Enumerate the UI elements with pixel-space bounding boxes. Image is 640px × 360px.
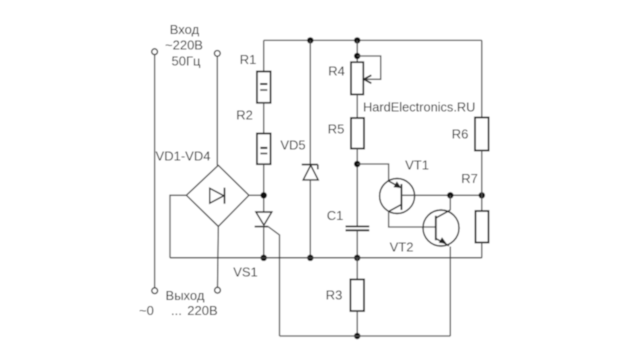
svg-text:VT1: VT1 <box>405 158 429 173</box>
node R4 wiper junction <box>354 53 360 59</box>
resistor R2 <box>257 134 271 165</box>
resistor R5 <box>351 118 364 149</box>
wire input left vertical <box>154 55 156 288</box>
wire R4 to R5 <box>356 94 358 118</box>
bridge diode triangle <box>210 188 224 203</box>
terminal input right <box>214 51 220 57</box>
resistor R3 <box>350 279 364 311</box>
svg-text:VD5: VD5 <box>280 137 305 152</box>
wire VS1 cathode to common <box>263 227 265 258</box>
svg-text:R3: R3 <box>326 288 343 303</box>
terminal output left <box>152 288 158 294</box>
node bridge plus junction <box>261 192 267 198</box>
svg-text:R2: R2 <box>236 108 253 123</box>
svg-text:50Гц: 50Гц <box>172 54 201 69</box>
svg-text:VD1-VD4: VD1-VD4 <box>156 149 211 164</box>
svg-text:~0...220В: ~0...220В <box>139 303 218 318</box>
thyristor VS1 <box>256 212 272 225</box>
wire VT1 base line <box>401 194 481 196</box>
wire R1 to R2 <box>263 103 265 134</box>
wire bridge right stub <box>249 194 264 196</box>
wire R4 wiper loop <box>357 56 381 79</box>
node common VD5 <box>307 255 313 261</box>
wire VT2 collector up <box>449 195 451 210</box>
node top rail VD5 <box>307 37 313 43</box>
resistor R6 <box>475 118 489 151</box>
wire common to R3 <box>356 258 358 280</box>
svg-text:Выход: Выход <box>166 288 205 303</box>
wire bridge left loop <box>170 195 186 257</box>
wire VD5 anode to common <box>309 180 311 258</box>
svg-text:VT2: VT2 <box>390 240 414 255</box>
bridge diode cathode bar <box>224 188 226 204</box>
svg-text:R5: R5 <box>328 121 345 136</box>
resistor R1 <box>257 72 271 103</box>
bridge rectifier VD1-VD4 diamond <box>186 165 249 226</box>
wire input right to bridge top <box>216 56 218 165</box>
svg-text:R1: R1 <box>240 52 257 67</box>
node top rail R4 <box>354 37 360 43</box>
wire VT2 emitter down <box>449 247 451 337</box>
terminal input left <box>152 49 158 55</box>
wire common rail <box>170 257 482 259</box>
wire R5 to C1 <box>356 149 358 226</box>
svg-text:VS1: VS1 <box>233 264 258 279</box>
wire VT1 collector to VT2 base <box>389 212 436 228</box>
terminal output right <box>215 287 221 293</box>
transistor VT2 <box>423 210 459 246</box>
capacitor C1 <box>346 225 370 227</box>
wire VD5 column upper <box>309 40 311 164</box>
node base line R6 R7 <box>479 192 485 198</box>
transistor VT1 <box>380 179 415 214</box>
wire lower rail <box>280 335 451 337</box>
svg-text:R4: R4 <box>328 64 345 79</box>
potentiometer R4 <box>351 62 363 94</box>
svg-text:Вход: Вход <box>170 22 200 37</box>
wire to VT1 emitter <box>357 164 388 181</box>
wire top rail to R6 <box>481 40 483 117</box>
R4 wiper arrowhead <box>364 75 371 83</box>
node VT1 emitter junction <box>354 161 360 167</box>
wire R2 to VS1 <box>263 164 265 212</box>
svg-text:~220В: ~220В <box>165 38 203 53</box>
svg-text:C1: C1 <box>327 208 344 223</box>
node lower rail R3 <box>354 333 360 339</box>
zener diode VD5 <box>302 164 318 166</box>
resistor R7 <box>476 211 489 243</box>
node common VS1 <box>261 255 267 261</box>
wire top rail to R4 <box>356 40 358 62</box>
wire top rail <box>264 39 482 41</box>
svg-text:R6: R6 <box>452 126 469 141</box>
wire bridge bottom to output <box>217 226 220 287</box>
wire R3 to lower rail <box>356 311 358 336</box>
node VT1 base VT2 collector <box>447 192 453 198</box>
wire R7 to common <box>481 243 483 258</box>
svg-text:R7: R7 <box>461 171 478 186</box>
wire top rail to R1 <box>263 40 265 71</box>
wire R6 to node <box>481 151 483 212</box>
wire C1 to common <box>356 230 358 257</box>
svg-text:HardElectronics.RU: HardElectronics.RU <box>363 99 475 114</box>
node common C1 <box>354 255 360 261</box>
